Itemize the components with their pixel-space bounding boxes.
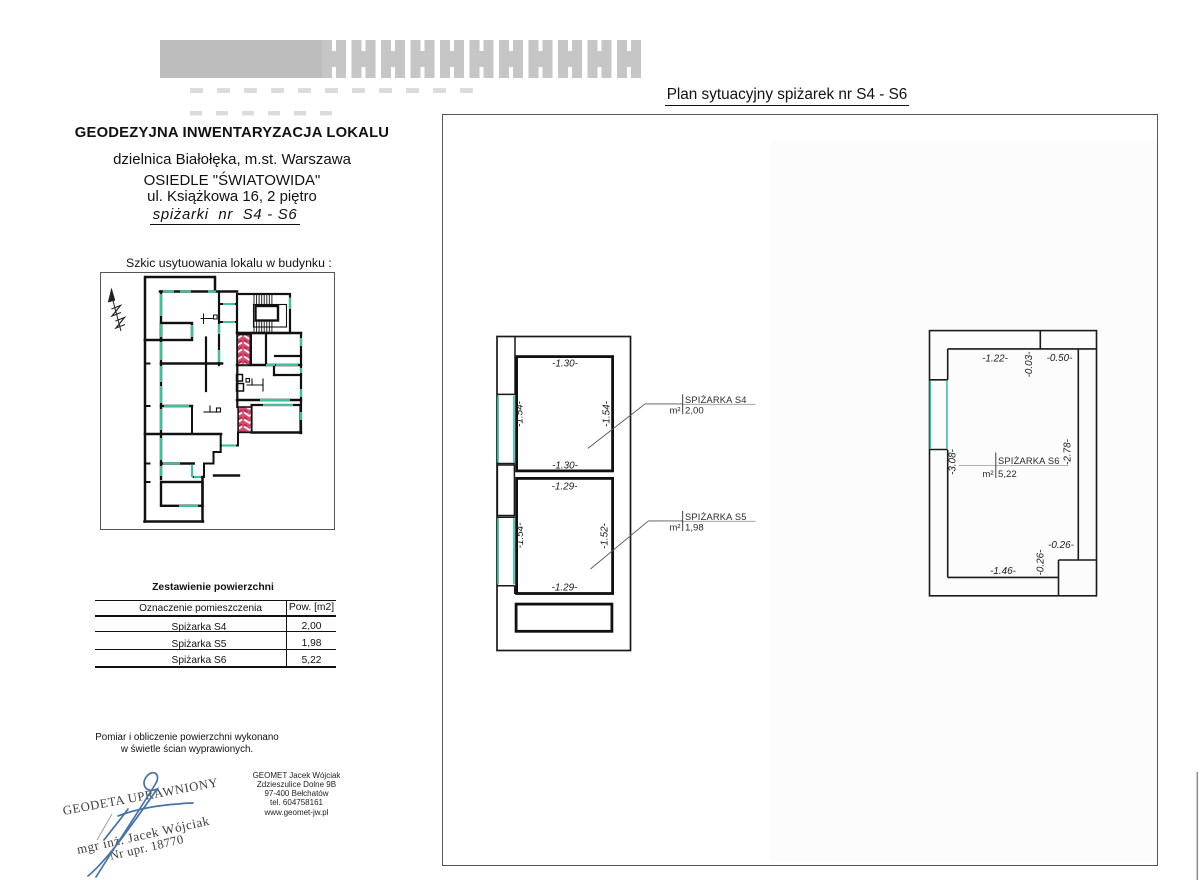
stairwell <box>237 294 290 333</box>
left band niche 3 <box>497 586 515 594</box>
plan title <box>662 86 912 104</box>
outer left wall <box>144 340 147 522</box>
big plan box <box>442 114 1158 866</box>
svg-text:-1.54-: -1.54- <box>515 400 526 427</box>
left band teal caps <box>930 449 948 451</box>
table title <box>120 582 306 593</box>
halftone header strip solid block <box>160 40 322 78</box>
north arrow <box>108 288 125 332</box>
outer right wall <box>300 333 302 433</box>
svg-text:-1.29-: -1.29- <box>552 583 579 594</box>
S6 dimension line <box>959 465 1069 467</box>
dimension labels S6 <box>948 351 1075 577</box>
svg-text:-0.50-: -0.50- <box>1047 353 1074 364</box>
stepped outer edge <box>221 433 238 446</box>
room S4 <box>517 357 613 471</box>
svg-text:-2.78-: -2.78- <box>1063 438 1074 465</box>
svg-text:-0.26-: -0.26- <box>1036 549 1047 576</box>
svg-text:5,22: 5,22 <box>998 469 1017 480</box>
bottom room <box>516 604 612 631</box>
svg-text:-1.54-: -1.54- <box>515 522 526 549</box>
building walls <box>145 277 302 522</box>
PLANS SVG <box>442 114 1157 864</box>
left plan outer wall <box>497 337 631 651</box>
label S4 <box>669 394 746 533</box>
teal wall segments left band <box>498 396 514 585</box>
dimension labels S4/S5 <box>515 359 613 594</box>
sketch box <box>100 272 335 530</box>
inner bottom wall <box>948 576 1059 578</box>
scan edge artifact right <box>1197 772 1199 880</box>
top-left room <box>145 277 215 340</box>
faint dash rows <box>190 88 473 116</box>
main horizontal wall <box>145 433 221 436</box>
stamp: GEODETA UPRAWNIONY <box>62 775 220 819</box>
left band niche 2 <box>497 465 514 516</box>
inner top wall line <box>948 348 1097 350</box>
scan tint inside big box <box>770 140 1156 862</box>
outer bottom wall <box>145 520 204 523</box>
teal caps <box>497 464 515 518</box>
leader S4 <box>588 404 683 569</box>
stamp thin diagonal <box>97 814 112 840</box>
right plan outer wall <box>930 331 1097 596</box>
bottom note <box>72 732 302 755</box>
svg-text:m²: m² <box>669 406 681 417</box>
svg-text:-0.26-: -0.26- <box>1048 540 1075 551</box>
svg-text:m²: m² <box>982 469 994 480</box>
svg-text:-3.08-: -3.08- <box>948 448 959 475</box>
svg-text:-1.30-: -1.30- <box>552 359 579 370</box>
sketch label <box>126 256 332 270</box>
svg-text:2,00: 2,00 <box>685 406 704 417</box>
svg-text:-1.46-: -1.46- <box>990 566 1017 577</box>
svg-text:-1.30-: -1.30- <box>552 461 579 472</box>
svg-text:-1.52-: -1.52- <box>600 522 611 549</box>
stamp: mgr inz <box>75 813 211 858</box>
SIGNATURE SVG <box>40 740 280 880</box>
GEOMET address block <box>246 771 347 817</box>
room upper-left <box>161 323 192 340</box>
left band lower solid <box>947 450 949 578</box>
SKETCH SVG <box>100 272 335 530</box>
room S5 <box>517 478 613 593</box>
signature stroke main <box>88 773 193 877</box>
svg-text:-1.22-: -1.22- <box>982 354 1009 365</box>
red hatched storage box 2 <box>238 407 252 432</box>
label S6 <box>982 456 1059 480</box>
left band: niche top <box>930 349 948 380</box>
svg-text:-0.03-: -0.03- <box>1024 351 1035 378</box>
svg-text:1,98: 1,98 <box>685 523 704 534</box>
svg-text:-1.29-: -1.29- <box>552 482 579 493</box>
svg-text:m²: m² <box>669 523 681 534</box>
teal segments S6 left band <box>930 381 947 449</box>
left band niche 1 <box>497 337 515 395</box>
bottom room <box>161 482 203 506</box>
bottom-right notch <box>1059 560 1097 596</box>
top corridor wall <box>160 290 237 293</box>
halftone header strip H pattern <box>322 40 641 78</box>
teal wall highlights <box>161 292 301 506</box>
areas table <box>95 600 336 668</box>
svg-text:SPIŻARKA S5: SPIŻARKA S5 <box>685 512 747 522</box>
svg-text:SPIŻARKA S6: SPIŻARKA S6 <box>998 456 1060 466</box>
inner right wall <box>1077 349 1079 560</box>
red hatched storage box 1 <box>237 335 250 366</box>
spine wall <box>160 292 162 480</box>
svg-text:SPIŻARKA S4: SPIŻARKA S4 <box>685 395 747 405</box>
top wall divider <box>1039 331 1041 349</box>
svg-text:-1.54-: -1.54- <box>602 400 613 427</box>
stamp: nr upr <box>108 832 185 864</box>
header text block <box>60 127 404 223</box>
